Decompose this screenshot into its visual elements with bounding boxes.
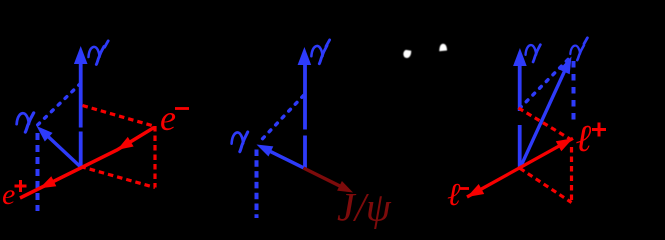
blue dashed plane edge A2 to T2 [258,96,304,144]
gamma z-axis shaft upper segment (gap from occluding arc) [518,64,522,111]
red dashed plane: top edge A_r1 to B [83,106,154,127]
e+ superscript plus [15,185,27,188]
red dashed plane: right edge B to C [570,147,573,203]
label gamma-prime: gamma glyph [570,45,584,60]
gamma-prime arrow shaft [520,68,566,168]
label gamma (on gamma arrow) [232,132,248,152]
gamma arrow shaft [269,151,304,168]
label gamma-prime: prime mark [105,41,109,47]
red dashed plane: right edge B to C [153,126,156,188]
gamma arrow arrowhead [257,145,274,157]
gamma-prime z-axis shaft lower segment [303,136,307,168]
red dashed plane: bottom edge O to C [520,168,572,202]
blue dashed plane edge A1 to T1 [37,84,81,127]
e- superscript minus bar [175,107,189,110]
gamma arrow shaft [47,136,80,167]
gamma z-axis arrowhead [513,48,527,66]
blue dashed vertical T1 to H1 [36,133,40,211]
J/psi arrowhead [337,181,353,193]
red dashed plane: bottom edge O to C [81,167,156,188]
gamma-prime z-axis shaft lower segment [79,132,83,167]
gamma-prime z-axis shaft upper segment (gap from occluding arc) [79,62,83,128]
label gamma (on gamma arrow) [17,113,34,132]
gamma z-axis shaft lower segment [518,125,522,168]
J/psi arrow shaft (dark red) [304,168,342,187]
label gamma-prime: gamma glyph [311,46,327,64]
label gamma-prime: prime mark [584,38,587,44]
white blob 1 (teardrop) [403,50,411,58]
label gamma-prime: gamma glyph [88,46,103,64]
svg-text:ℓ: ℓ [576,118,592,160]
arrowhead on beam line near e+ end [40,176,57,188]
arrowhead on beam line at bend pointing toward e+ [117,137,134,150]
arrowhead at l- tip [467,184,484,197]
white blob 2 (dome) [439,44,447,52]
gamma-prime z-axis arrowhead [74,46,88,64]
gamma-prime z-axis shaft upper segment (gap from occluding arc) [303,63,307,130]
red dashed plane: top edge A_r3 to B [519,108,571,139]
gamma-prime arrowhead [559,57,571,75]
svg-text:ℓ: ℓ [447,176,461,212]
blue dashed vertical T3 to H3 [572,61,576,126]
svg-text:e: e [2,178,15,211]
gamma-prime z-axis arrowhead [298,47,312,65]
arrowhead at l+ tip [556,138,573,151]
wire: red beam line segment from e- to bend at arrowhead [20,128,154,199]
l+ plus sign [592,128,606,131]
blue dashed vertical T2 to H2 [255,150,259,219]
svg-text:J/ψ: J/ψ [337,185,392,230]
label gamma (on z-axis) [526,45,541,62]
red lepton line l- to l+ [467,138,573,197]
gamma arrow arrowhead [37,126,53,142]
l- minus bar [460,187,470,190]
blue dashed plane edge A3 to T3 [520,58,571,109]
label gamma-prime: prime mark [326,40,330,46]
svg-text:e: e [160,98,176,138]
